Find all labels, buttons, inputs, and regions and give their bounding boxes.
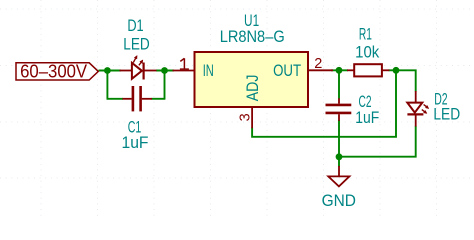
wire: D1 cathode to U1 pin1	[156, 70, 174, 72]
svg-text:1uF: 1uF	[355, 109, 379, 127]
pin 1 (U1 IN)	[173, 70, 195, 72]
pin 3 (U1 ADJ)	[251, 107, 253, 128]
svg-text:OUT: OUT	[273, 62, 301, 80]
svg-text:LED: LED	[123, 36, 150, 54]
global label 60-300V	[16, 61, 98, 81]
svg-text:ADJ: ADJ	[244, 75, 262, 102]
ground	[328, 166, 349, 186]
svg-text:GND: GND	[322, 192, 356, 210]
resistor R1	[347, 64, 389, 76]
wire: up to junction B	[164, 71, 166, 99]
junction E	[336, 153, 343, 160]
wire: C2 bottom to junction E	[338, 120, 340, 157]
diode D2 (LED)	[407, 91, 429, 127]
wire: R1 right to junction D	[389, 69, 397, 71]
junction C	[336, 67, 343, 74]
wire: junction E down to GND stub	[338, 157, 340, 167]
svg-text:R1: R1	[359, 26, 372, 44]
svg-text:10k: 10k	[355, 44, 380, 62]
junction B	[161, 67, 168, 74]
wire: C1 right horizontal	[152, 98, 166, 100]
wire: junction C down to C2	[338, 70, 340, 98]
svg-text:1uF: 1uF	[122, 134, 149, 152]
wire: U1 pin2 to junction C to R1	[331, 69, 348, 71]
junction D	[393, 67, 400, 74]
svg-text:LR8N8–G: LR8N8–G	[220, 28, 285, 46]
wire: junction A down to C1 branch	[106, 71, 108, 99]
svg-text:D1: D1	[127, 17, 143, 35]
capacitor C2	[326, 98, 352, 121]
wire: C1 left horizontal	[107, 98, 124, 100]
op-amp U1 body	[195, 52, 309, 107]
wire: D2 bottom down and left to junction E	[339, 126, 416, 157]
junction A	[104, 67, 111, 74]
diode D1 (LED)	[120, 56, 157, 80]
wire: junction D down to ADJ feedback	[252, 70, 396, 137]
svg-text:3: 3	[237, 113, 253, 121]
wire: main rail label to D1 anode	[99, 70, 122, 72]
svg-text:60–300V: 60–300V	[20, 61, 87, 81]
pin 2 (U1 OUT)	[308, 69, 333, 71]
svg-text:LED: LED	[433, 106, 460, 124]
svg-text:IN: IN	[203, 62, 214, 80]
capacitor C1	[123, 86, 153, 111]
svg-text:2: 2	[314, 56, 322, 72]
wire: junction D to D2 top	[396, 70, 416, 91]
